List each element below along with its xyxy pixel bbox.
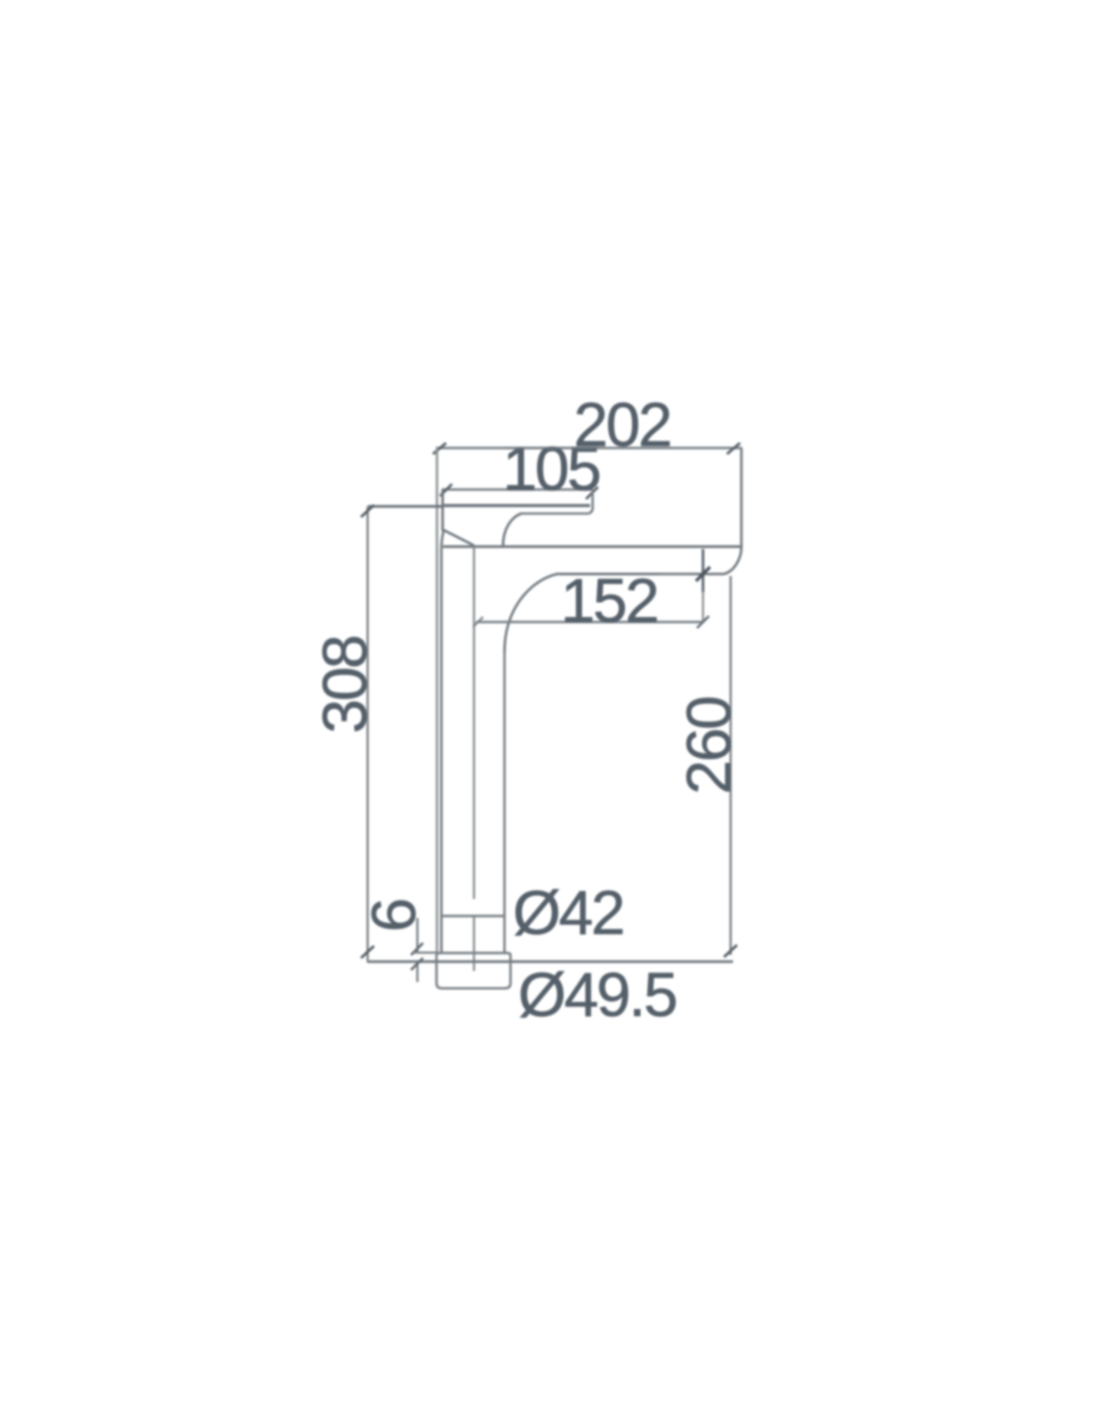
- dimension line 6 upper segment: [416, 918, 418, 953]
- centerline upper: [473, 547, 475, 899]
- svg-text:308: 308: [311, 637, 380, 734]
- base plate rounded rect: [437, 953, 511, 988]
- body top right fillet: [588, 507, 593, 514]
- extension line 6 top: [414, 951, 438, 953]
- tick 308 bottom: [361, 946, 374, 958]
- spout underside to column arc: [505, 574, 558, 652]
- dimension line 6 lower segment: [416, 962, 418, 982]
- body right edge: [740, 448, 743, 547]
- tick left 105: [440, 484, 452, 496]
- dimension line 202 / faucet top edge: [436, 447, 742, 450]
- tick 6 top: [411, 943, 423, 955]
- lever left edge: [441, 490, 444, 532]
- tick 6 bottom: [411, 958, 423, 970]
- handle underside diagonal: [444, 530, 475, 546]
- lever bottom: [443, 504, 590, 507]
- svg-text:Ø42: Ø42: [513, 879, 624, 948]
- spout underside / outlet bottom: [556, 573, 724, 576]
- extension line outlet center: [702, 549, 705, 592]
- extension line 202 left vertical: [436, 448, 438, 953]
- spout tip corner arc: [724, 547, 741, 574]
- svg-text:105: 105: [503, 435, 600, 504]
- svg-text:260: 260: [675, 697, 744, 795]
- lever right edge: [591, 490, 593, 508]
- column left edge: [441, 531, 443, 952]
- column right edge: [503, 650, 505, 952]
- lever top / dimension line 105: [442, 488, 593, 491]
- body top line under lever: [520, 512, 588, 514]
- svg-text:Ø49.5: Ø49.5: [518, 961, 676, 1030]
- svg-text:152: 152: [561, 567, 658, 636]
- line overlay through 105 text: [505, 447, 600, 450]
- tick right 105: [586, 487, 598, 499]
- dimension line 260 vertical: [729, 576, 731, 955]
- svg-text:6: 6: [360, 900, 429, 932]
- line overlay through 152 text: [560, 573, 660, 576]
- centerline lower through base: [473, 916, 475, 971]
- tick right 202: [727, 443, 740, 454]
- S-curve neck: [503, 514, 521, 546]
- counter mounting line: [367, 960, 733, 963]
- ring top line: [442, 915, 504, 917]
- tick 152 right: [697, 616, 709, 628]
- tick outlet reference: [696, 567, 710, 581]
- body bottom line: [443, 545, 741, 548]
- tick 308 top: [361, 505, 374, 517]
- tick left 202: [433, 443, 446, 454]
- tick 152 left: [473, 617, 483, 627]
- tick 260 bottom: [724, 945, 737, 957]
- dimension line 152: [476, 621, 702, 624]
- extension line 308 top: [368, 505, 444, 508]
- dimension line 308 vertical: [366, 506, 368, 961]
